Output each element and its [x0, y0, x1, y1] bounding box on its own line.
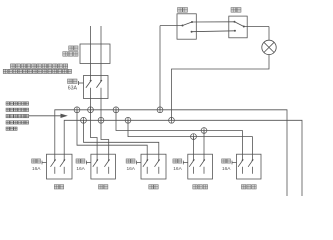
- svg-text:16A: 16A: [126, 166, 135, 172]
- svg-text:63A: 63A: [68, 86, 78, 92]
- svg-text:16A: 16A: [173, 166, 182, 172]
- svg-text:16A: 16A: [32, 166, 41, 172]
- svg-text:16A: 16A: [76, 166, 85, 172]
- svg-text:16A: 16A: [222, 166, 231, 172]
